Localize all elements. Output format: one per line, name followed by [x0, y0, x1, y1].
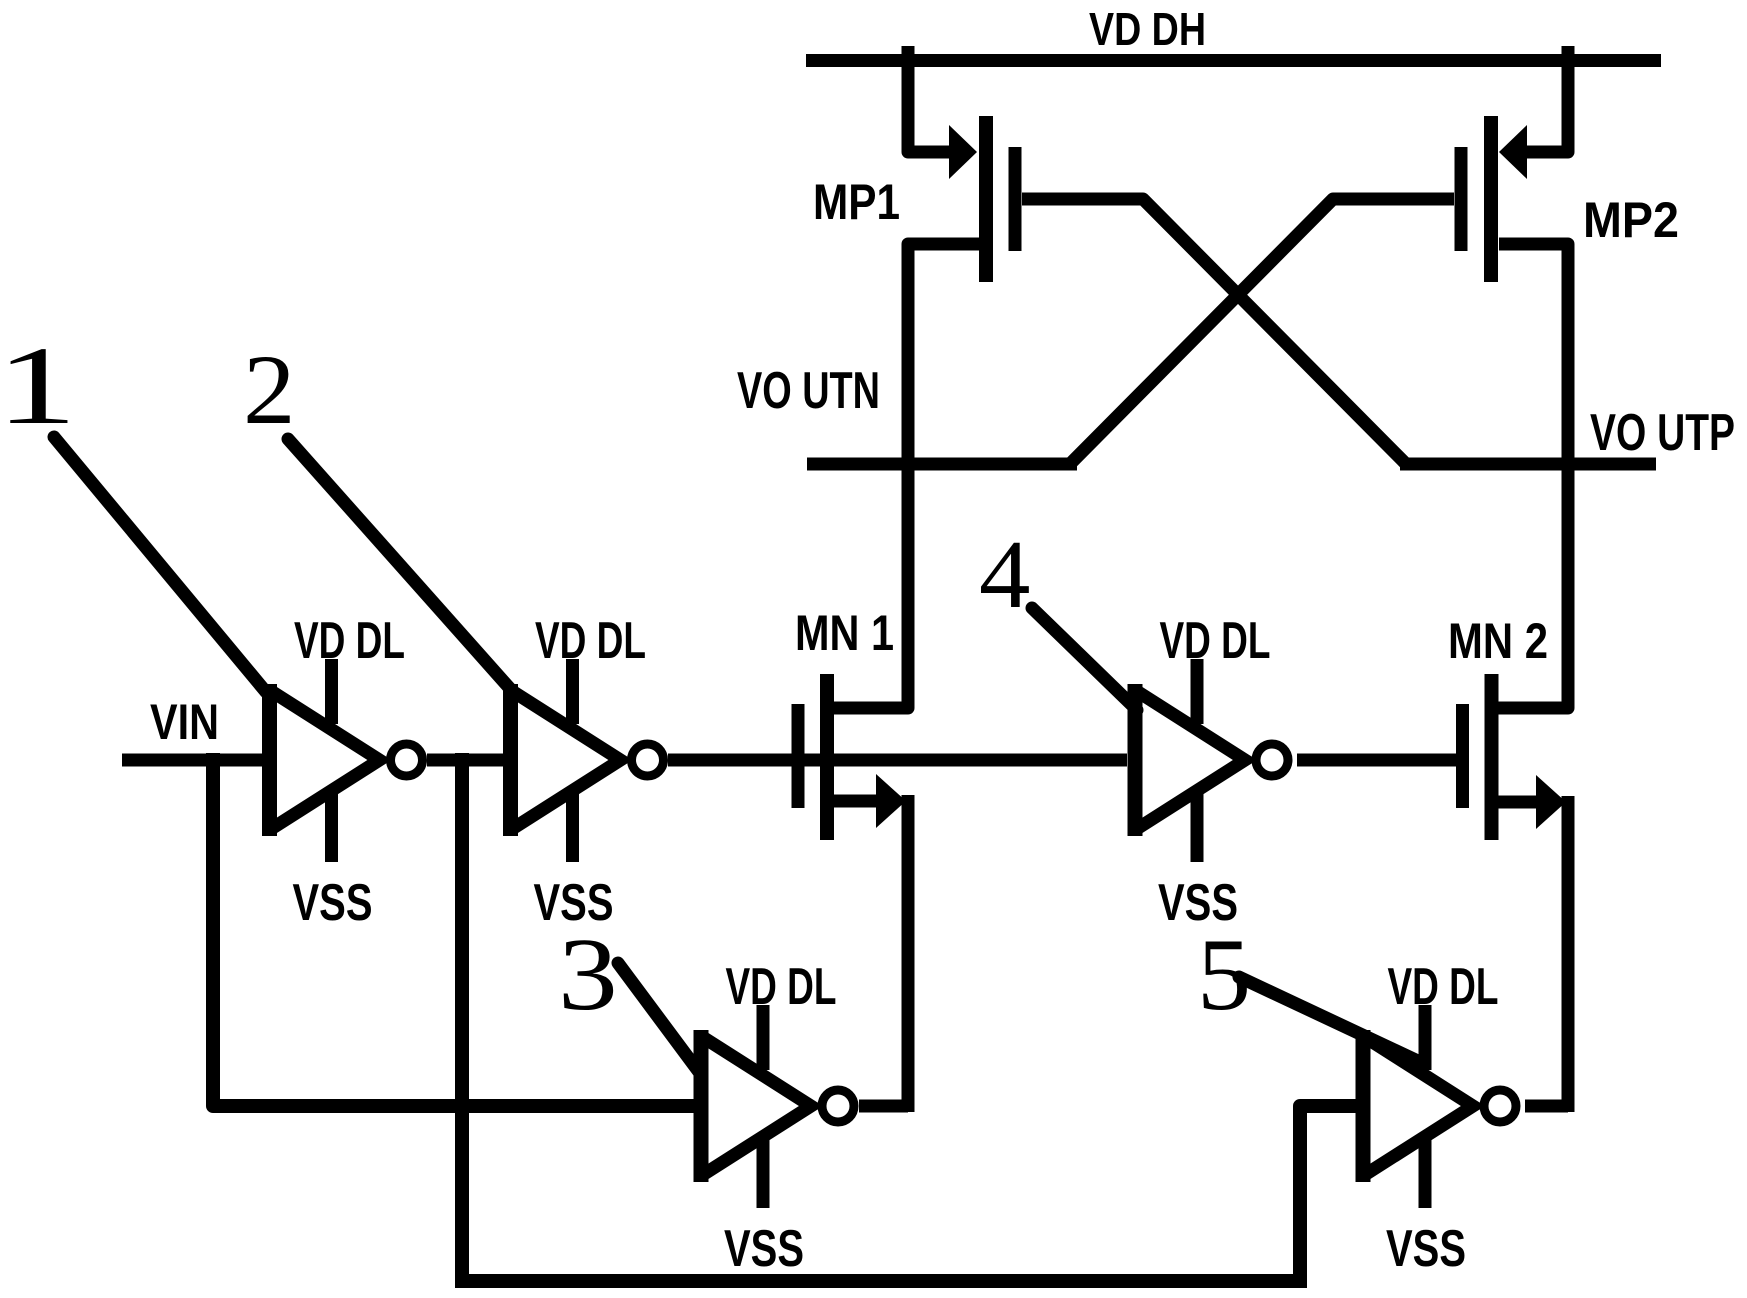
svg-text:VO UTN: VO UTN — [737, 362, 880, 420]
svg-text:VO UTP: VO UTP — [1590, 404, 1735, 462]
wire inverter U5 output to MN2 source — [1525, 1100, 1568, 1113]
callout numeral 5 — [1197, 917, 1251, 1031]
ground label VSS of inverter U1 — [293, 874, 373, 932]
wire inverter U1 output junction down to bottom rail — [455, 753, 469, 1281]
wire inverter U3 output to MN1 source — [859, 1100, 908, 1113]
inverter U4 power stub VDDL — [1191, 659, 1204, 724]
wire bottom rail up to inverter U5 input — [1300, 1106, 1356, 1288]
node VOUTN horizontal wire — [807, 458, 1077, 471]
callout pointer line 3 — [618, 963, 699, 1072]
inverter U1 power stub VDDL — [325, 659, 338, 724]
callout numeral 1 — [0, 324, 77, 448]
inverter U2 (triangle buffer with output bubble) — [511, 684, 664, 836]
svg-text:MP1: MP1 — [813, 174, 900, 230]
inverter U5 power stub VDDL — [1419, 1005, 1432, 1070]
wire VOUTP to MN2 drain — [1562, 458, 1575, 470]
inverter U3 power stub VDDL — [757, 1005, 770, 1070]
inverter U4 (triangle buffer with output bubble) — [1135, 684, 1288, 836]
power label VDDL of inverter U2 — [535, 612, 646, 670]
transistor MN2 — [1463, 460, 1569, 840]
svg-text:1: 1 — [0, 324, 77, 448]
power label VDDL of inverter U5 — [1388, 958, 1499, 1016]
wire MP1 gate lead and cross-coupling diagonal to VOUTP — [1022, 199, 1406, 464]
wire MP2 gate lead and cross-coupling diagonal to VOUTN — [1070, 199, 1454, 464]
node VOUTP horizontal wire — [1400, 458, 1656, 471]
svg-text:2: 2 — [243, 335, 296, 445]
node label VOUTP — [1590, 404, 1735, 462]
svg-text:VD DL: VD DL — [535, 612, 646, 670]
wire MN2 source down (x=1568) — [1562, 796, 1575, 1112]
svg-text:VD DL: VD DL — [726, 958, 837, 1016]
inverter U3 (triangle buffer with output bubble) — [701, 1030, 854, 1182]
svg-text:VSS: VSS — [293, 874, 373, 932]
wire inverter U4 output to MN2 gate — [1297, 754, 1456, 767]
svg-text:3: 3 — [558, 917, 618, 1032]
callout numeral 2 — [243, 335, 296, 445]
ground label VSS of inverter U3 — [724, 1220, 804, 1278]
callout pointer line 5 — [1239, 977, 1420, 1062]
wire MN1 source down (x=908) — [902, 795, 915, 1112]
callout numeral 3 — [558, 917, 618, 1032]
ground label VSS of inverter U5 — [1386, 1220, 1466, 1278]
inverter U2 ground stub VSS — [566, 790, 579, 862]
label MP2 — [1583, 192, 1679, 248]
svg-text:MN 1: MN 1 — [795, 605, 894, 661]
callout pointer line 4 — [1032, 608, 1137, 710]
net VDDH rail wire — [806, 54, 1661, 67]
inverter U4 ground stub VSS — [1191, 790, 1204, 862]
wire VIN junction down to inverter U3 input — [213, 753, 694, 1106]
svg-text:VD DH: VD DH — [1089, 3, 1206, 55]
inverter U5 (triangle buffer with output bubble) — [1363, 1030, 1516, 1182]
power label VDDL of inverter U1 — [294, 612, 405, 670]
transistor MN1 — [798, 460, 908, 840]
inverter U3 ground stub VSS — [757, 1136, 770, 1208]
net label VDDH — [1089, 3, 1206, 55]
wire inverter U2 output to MN1 gate — [668, 754, 798, 767]
label MP1 — [813, 174, 900, 230]
svg-text:MN 2: MN 2 — [1448, 613, 1548, 669]
power label VDDL of inverter U4 — [1160, 612, 1271, 670]
callout pointer line 2 — [288, 439, 513, 692]
wire VOUTN to MN1 drain — [902, 458, 915, 470]
wire MN1 gate to inverter U4 input — [798, 754, 1127, 767]
transistor MP2 — [1461, 46, 1568, 470]
callout numeral 4 — [979, 519, 1030, 628]
transistor MP1 — [908, 46, 1015, 470]
node label VOUTN — [737, 362, 880, 420]
svg-text:MP2: MP2 — [1583, 192, 1679, 248]
ground label VSS of inverter U2 — [534, 874, 614, 932]
wire VIN input — [122, 754, 263, 767]
node label VIN — [150, 694, 219, 750]
svg-text:VIN: VIN — [150, 694, 219, 750]
wire inverter U1 output to inverter U2 input — [427, 754, 504, 767]
inverter U1 ground stub VSS — [325, 790, 338, 862]
wire bottom feedback rail — [455, 1274, 1300, 1288]
svg-text:VSS: VSS — [724, 1220, 804, 1278]
svg-text:VD DL: VD DL — [1160, 612, 1271, 670]
power label VDDL of inverter U3 — [726, 958, 837, 1016]
inverter U1 (triangle buffer with output bubble) — [270, 684, 423, 836]
svg-text:VSS: VSS — [1386, 1220, 1466, 1278]
label MN1 — [795, 605, 894, 661]
callout pointer line 1 — [54, 437, 266, 692]
label MN2 — [1448, 613, 1548, 669]
svg-text:4: 4 — [979, 519, 1030, 628]
ground label VSS of inverter U4 — [1158, 874, 1238, 932]
inverter U2 power stub VDDL — [566, 659, 579, 724]
inverter U5 ground stub VSS — [1419, 1136, 1432, 1208]
svg-text:VD DL: VD DL — [1388, 958, 1499, 1016]
svg-text:VD DL: VD DL — [294, 612, 405, 670]
